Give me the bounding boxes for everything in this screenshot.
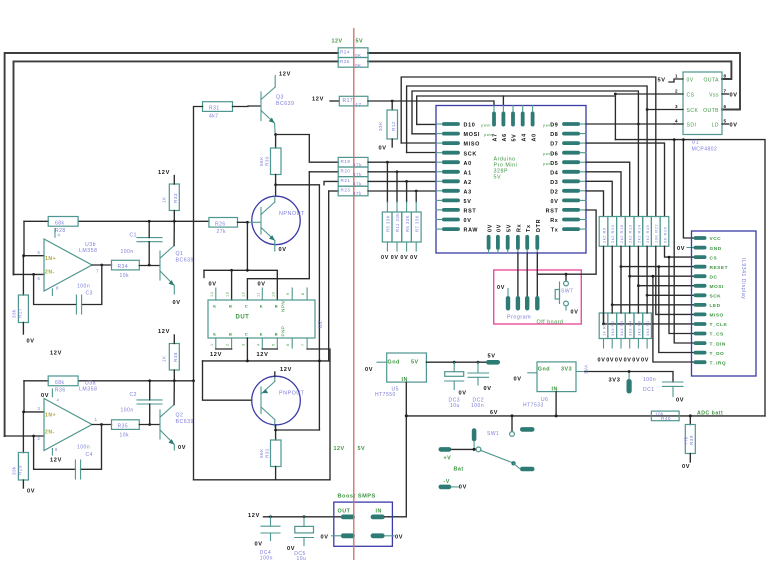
- svg-text:100n: 100n: [77, 284, 90, 290]
- svg-text:A3: A3: [464, 189, 472, 195]
- wire R27 to 0V: [22, 323, 24, 335]
- svg-text:27k: 27k: [217, 229, 227, 235]
- wire R26 to NPNOUT base + branch down to DUT: [238, 221, 248, 223]
- wire display VCC: [683, 140, 694, 238]
- svg-text:pwm: pwm: [481, 123, 491, 128]
- svg-text:0V: 0V: [391, 255, 399, 261]
- svg-text:3k3 R2: 3k3 R2: [610, 320, 615, 336]
- wire bottom loop rail: [194, 479, 331, 481]
- svg-text:47: 47: [355, 103, 362, 109]
- svg-text:C: C: [245, 332, 248, 337]
- svg-text:MISO: MISO: [710, 313, 724, 319]
- regulator U6 HT7533: [537, 362, 576, 392]
- svg-text:12V: 12V: [50, 458, 62, 464]
- svg-text:MOSI: MOSI: [464, 132, 481, 138]
- capacitor DC5 10u: [303, 517, 305, 527]
- svg-text:4: 4: [256, 343, 260, 346]
- svg-text:R7 33K: R7 33K: [415, 215, 420, 232]
- svg-text:BC639: BC639: [276, 101, 294, 107]
- Arduino right pin 0V: [562, 199, 580, 203]
- svg-text:12V: 12V: [158, 329, 170, 335]
- wire +IN stub: [23, 255, 44, 257]
- resistor R12 33K pulldown: [391, 101, 393, 110]
- svg-text:R30: R30: [265, 156, 270, 166]
- svg-text:OUT: OUT: [338, 508, 351, 514]
- resistor R14 2k2: [634, 217, 643, 247]
- transistor PNPOUT: [252, 376, 301, 425]
- svg-text:1: 1: [675, 74, 678, 79]
- svg-text:12V: 12V: [332, 39, 343, 45]
- Arduino left pin D10: [442, 122, 460, 126]
- resistor R16 0K: [660, 217, 669, 247]
- svg-text:56K: 56K: [259, 448, 264, 458]
- svg-text:E: E: [260, 332, 263, 337]
- display pin DC: [694, 274, 707, 278]
- svg-text:100n: 100n: [121, 249, 134, 255]
- svg-text:0V: 0V: [551, 199, 559, 205]
- Arduino right pin Tx: [562, 227, 580, 231]
- wire PNPOUT emitter node: [275, 425, 277, 440]
- svg-text:D3: D3: [550, 180, 558, 186]
- wire Rx to header: [517, 253, 519, 296]
- resistor R30 56K: [271, 148, 282, 175]
- wire A2 sense tap: [324, 181, 338, 184]
- svg-text:5V: 5V: [494, 175, 502, 181]
- wire rail down to Boost IN: [389, 416, 406, 517]
- svg-text:C2: C2: [130, 392, 137, 398]
- svg-text:CS: CS: [710, 255, 718, 261]
- svg-text:Q2: Q2: [176, 412, 184, 418]
- resistor R15 2k2: [643, 217, 652, 247]
- resistor R8 3k3: [634, 313, 643, 339]
- resistor R36 68k: [48, 376, 78, 386]
- svg-text:5V: 5V: [488, 354, 496, 360]
- Arduino right pin D2: [562, 189, 580, 193]
- resistor R38 1K: [169, 344, 179, 371]
- svg-text:C1: C1: [130, 233, 137, 239]
- wire 3k3 tops: [603, 313, 605, 324]
- wire R34 to Q1 base: [139, 265, 159, 267]
- svg-text:OUTA: OUTA: [703, 77, 719, 83]
- svg-text:2: 2: [675, 89, 678, 94]
- svg-text:LD: LD: [712, 122, 719, 128]
- svg-text:DTR: DTR: [536, 219, 542, 232]
- svg-text:0V: 0V: [484, 386, 492, 392]
- Arduino left pin SCK: [442, 151, 460, 155]
- wire +IN divider vertical (R36 corner down to R29): [23, 381, 25, 412]
- wire Q3 emitter to R30: [274, 133, 277, 136]
- capacitor DC4 100n: [270, 517, 272, 526]
- Boost SMPS module box: [334, 502, 393, 546]
- display pin CS: [694, 255, 707, 259]
- svg-text:68k: 68k: [55, 380, 65, 386]
- regulator U5 HT7550: [387, 353, 427, 382]
- node +IN junction: [22, 254, 25, 257]
- svg-text:2: 2: [226, 343, 230, 346]
- svg-text:11: 11: [256, 292, 260, 297]
- svg-text:3k3 R4: 3k3 R4: [628, 320, 633, 336]
- svg-text:DC1: DC1: [643, 387, 655, 393]
- resistor R5 33K: [382, 212, 392, 242]
- svg-text:0V: 0V: [624, 358, 632, 364]
- wire display MOSI net: [638, 246, 694, 285]
- display module ILI9341 box: [692, 231, 757, 376]
- svg-text:2N-: 2N-: [45, 430, 55, 436]
- svg-text:D4: D4: [550, 170, 558, 176]
- svg-text:DUT: DUT: [236, 314, 250, 320]
- svg-text:0V: 0V: [173, 300, 181, 306]
- svg-text:3VA: 3VA: [583, 364, 588, 374]
- svg-text:0V: 0V: [677, 246, 685, 252]
- svg-text:5V: 5V: [464, 199, 472, 205]
- svg-text:0V: 0V: [459, 391, 467, 397]
- Arduino left pin A2: [442, 179, 460, 183]
- svg-text:12: 12: [241, 292, 245, 297]
- wire D9 to MCP SDI: [586, 123, 674, 125]
- wire A0 sense from Q3 emitter node: [276, 135, 339, 163]
- svg-text:SCK: SCK: [464, 151, 477, 157]
- svg-text:2k2 R9: 2k2 R9: [602, 227, 607, 243]
- svg-text:Q3: Q3: [276, 95, 284, 101]
- svg-text:A2: A2: [464, 180, 472, 186]
- svg-text:4: 4: [57, 398, 60, 403]
- display pin SCK: [694, 293, 707, 297]
- svg-text:0V: 0V: [365, 367, 373, 373]
- svg-text:2k2 R10: 2k2 R10: [610, 224, 615, 243]
- Arduino right pin D3: [562, 179, 580, 183]
- resistor R1 3k3: [643, 313, 652, 339]
- svg-text:R31: R31: [209, 105, 220, 111]
- svg-text:12V: 12V: [248, 513, 260, 519]
- svg-text:RAW: RAW: [464, 228, 479, 234]
- Arduino left pin MISO: [442, 141, 460, 145]
- battery rail 6V: [406, 415, 765, 417]
- resistor R26 27k: [209, 218, 238, 228]
- Arduino left pin MOSI: [442, 132, 460, 136]
- display pin MISO: [694, 313, 707, 317]
- svg-text:PNP: PNP: [281, 326, 286, 337]
- wire C-rail bus under DUT: [203, 360, 329, 362]
- Arduino left pin RAW: [442, 227, 460, 231]
- svg-text:5V: 5V: [506, 224, 512, 232]
- svg-text:0K: 0K: [355, 63, 362, 68]
- resistor R10 2k2: [608, 217, 617, 247]
- display pin T_DIN: [694, 341, 707, 345]
- svg-text:E: E: [260, 304, 263, 309]
- wire D5 to column: [586, 162, 630, 216]
- resistor R17 1k: [599, 313, 608, 339]
- svg-text:6V: 6V: [490, 410, 498, 416]
- svg-text:0V: 0V: [676, 398, 684, 404]
- svg-text:RST: RST: [546, 209, 559, 215]
- resistor R22 10K: [651, 217, 660, 247]
- wire A7 net: [368, 101, 494, 106]
- resistor R18 2k2: [617, 217, 626, 247]
- sheet split red line (overlay): [353, 28, 355, 560]
- svg-text:DC: DC: [710, 274, 718, 280]
- resistor R3 3k3: [617, 313, 626, 339]
- svg-text:4: 4: [675, 119, 678, 124]
- wire DUT pin6 stub: [291, 338, 293, 348]
- svg-text:3: 3: [241, 343, 245, 346]
- transistor Q1 BC639: [159, 251, 161, 280]
- svg-text:3V3: 3V3: [561, 367, 572, 373]
- Arduino left pin 0V: [442, 218, 460, 222]
- Arduino left pin A3: [442, 189, 460, 193]
- svg-text:0V: 0V: [379, 146, 387, 152]
- wire display T_IRQ net: [653, 276, 694, 362]
- svg-text:5V: 5V: [358, 446, 366, 452]
- svg-text:2: 2: [38, 436, 41, 441]
- svg-text:Vss: Vss: [709, 92, 719, 98]
- wire A1 sense from DUT pin12: [309, 171, 338, 173]
- svg-text:0V: 0V: [632, 358, 640, 364]
- svg-text:Program: Program: [507, 315, 531, 321]
- svg-text:2N-: 2N-: [45, 270, 55, 276]
- svg-text:0V: 0V: [459, 485, 467, 491]
- svg-text:R17: R17: [343, 98, 354, 104]
- wire U6 IN to rail: [555, 392, 557, 416]
- svg-text:0V: 0V: [400, 255, 408, 261]
- svg-text:100n: 100n: [121, 408, 134, 414]
- Arduino right pin D8: [562, 132, 580, 136]
- svg-text:0V: 0V: [571, 310, 579, 316]
- svg-text:R29: R29: [18, 465, 23, 475]
- resistor R33 1K: [169, 184, 179, 211]
- wire MCP LD to 0V: [722, 123, 729, 125]
- svg-text:GND: GND: [710, 246, 722, 252]
- svg-text:R27: R27: [18, 308, 23, 318]
- svg-text:1: 1: [95, 417, 98, 422]
- wire Tx to header: [526, 253, 528, 296]
- display pin T_DO: [694, 351, 707, 355]
- resistor R13 2k2: [625, 217, 634, 247]
- wire DUT pin3 down to C rail: [246, 338, 248, 361]
- svg-text:PNPOUT: PNPOUT: [279, 391, 305, 397]
- svg-text:C4: C4: [86, 452, 93, 458]
- svg-text:1N+: 1N+: [45, 256, 56, 262]
- svg-text:Bat: Bat: [454, 466, 464, 472]
- svg-text:5V: 5V: [356, 39, 364, 45]
- wire MCP CS from D10 bus: [615, 93, 683, 95]
- capacitor DC2 100n: [477, 362, 479, 373]
- wire D3 to column: [586, 181, 612, 216]
- Arduino right pin D4: [562, 170, 580, 174]
- wire Boost 0V pins: [332, 535, 341, 537]
- capacitor C3 100n feedback: [34, 274, 77, 304]
- svg-text:14: 14: [210, 292, 214, 297]
- svg-text:IN: IN: [376, 508, 382, 514]
- wire R31 left lead long vertical to U3a feedback: [194, 107, 203, 480]
- svg-text:0V: 0V: [279, 247, 287, 253]
- wire display MISO net: [656, 246, 694, 314]
- wire D7 to column R16: [586, 143, 665, 216]
- svg-text:pwm: pwm: [543, 151, 553, 156]
- svg-text:A1: A1: [464, 170, 472, 176]
- resistor R35 10k: [112, 420, 140, 430]
- Arduino right pin Rx: [562, 218, 580, 222]
- wire MOSI bus (y=91): [412, 133, 436, 135]
- wire SCK bus (y=86): [407, 152, 436, 154]
- svg-text:33k: 33k: [12, 466, 17, 475]
- wire Boost IN lead: [385, 516, 389, 518]
- svg-text:33k: 33k: [12, 309, 17, 318]
- svg-text:12V: 12V: [210, 352, 222, 358]
- svg-text:D8: D8: [550, 132, 558, 138]
- svg-text:-V: -V: [444, 479, 450, 485]
- svg-text:Off board: Off board: [537, 320, 564, 326]
- svg-text:3V3: 3V3: [609, 378, 621, 384]
- wire outer DAC bus (OUTB net): left border + top run to MCP pin6: [5, 53, 339, 436]
- svg-text:68k: 68k: [55, 221, 65, 227]
- wire A1 row to Arduino: [368, 171, 436, 173]
- resistor R4 3k3: [625, 313, 634, 339]
- Arduino right pin RST: [562, 208, 580, 212]
- svg-text:100n: 100n: [471, 403, 484, 409]
- svg-text:U3a: U3a: [85, 381, 96, 387]
- svg-text:5V: 5V: [411, 360, 419, 366]
- svg-text:R12: R12: [391, 121, 396, 131]
- svg-text:3k3 R8: 3k3 R8: [636, 320, 641, 336]
- capacitor C4 100n feedback: [34, 436, 76, 469]
- resistor R7 33K: [411, 212, 421, 242]
- svg-text:SDI: SDI: [687, 122, 697, 128]
- wire DUT pin14 lead: [215, 288, 217, 300]
- wire R35 to Q2 base: [139, 424, 159, 426]
- svg-text:B: B: [229, 332, 232, 337]
- svg-text:D7: D7: [550, 142, 558, 148]
- svg-text:12V: 12V: [279, 71, 291, 77]
- svg-text:12V: 12V: [158, 170, 170, 176]
- wire collector node to DUT C rail: [276, 185, 320, 430]
- wire inner DAC bus (OUTA net): left border + top run to MCP pin8: [14, 61, 339, 274]
- pin 8 stub U3a + 12V: [51, 449, 53, 456]
- svg-text:10u: 10u: [450, 403, 460, 409]
- svg-text:4: 4: [58, 233, 61, 238]
- svg-text:0V: 0V: [395, 534, 403, 540]
- svg-text:CS: CS: [687, 92, 695, 98]
- DUT socket box U2: [208, 300, 315, 338]
- svg-text:0V: 0V: [258, 282, 266, 288]
- svg-text:2k2 R13: 2k2 R13: [628, 224, 633, 243]
- wire display CS net: [665, 246, 695, 257]
- svg-text:Gnd: Gnd: [388, 360, 400, 366]
- svg-text:LM358: LM358: [79, 248, 97, 254]
- resistor R34 10k: [112, 260, 140, 270]
- svg-text:0V: 0V: [497, 285, 505, 291]
- header pin bars: [506, 296, 510, 311]
- wire DUT pin9/pin8 top stubs: [291, 288, 293, 300]
- svg-text:8: 8: [301, 292, 305, 295]
- stacked sense resistors A0-A3: [338, 157, 368, 167]
- svg-text:0V: 0V: [606, 358, 614, 364]
- svg-text:LM358: LM358: [79, 387, 97, 393]
- svg-text:R35: R35: [118, 424, 129, 430]
- svg-text:12V: 12V: [257, 352, 269, 358]
- svg-text:1N+: 1N+: [45, 412, 56, 418]
- svg-text:R40: R40: [661, 416, 671, 421]
- resistor R29 33k: [18, 453, 28, 481]
- svg-text:5: 5: [724, 119, 727, 124]
- wire display DC net: [630, 246, 694, 276]
- wire display T_DIN net: [674, 140, 694, 343]
- svg-text:HT7550: HT7550: [375, 392, 396, 398]
- capacitor DC3 10u: [453, 362, 455, 372]
- svg-text:IN: IN: [552, 386, 558, 392]
- svg-text:5V: 5V: [512, 134, 518, 142]
- svg-text:+V: +V: [444, 456, 452, 462]
- svg-text:12V: 12V: [334, 446, 345, 452]
- wire U3b feedback node (y=221.3 from corner to R26): [24, 220, 48, 222]
- display pin GND: [694, 246, 707, 250]
- svg-text:SCK: SCK: [687, 108, 699, 114]
- op-amp U3a LM358: [44, 399, 92, 451]
- svg-text:10K R22: 10K R22: [654, 224, 659, 243]
- svg-text:12V: 12V: [312, 97, 324, 103]
- wire DUT pin7 to right rail: [306, 338, 308, 349]
- wire U6 3V3 output: [576, 371, 585, 373]
- Arduino right pin D7: [562, 141, 580, 145]
- DAC U1 MCP4802 box: [683, 72, 722, 135]
- wire 12V to Boost OUT: [264, 516, 341, 518]
- wire R31 to Q3 base (jog): [233, 105, 261, 108]
- resistor R2 3k3: [608, 313, 617, 339]
- svg-text:BC639: BC639: [176, 419, 194, 425]
- wire A2 row to Arduino: [368, 180, 436, 182]
- svg-text:OUTB: OUTB: [703, 108, 719, 114]
- wire DUT top B/E rail (y=270.3): [204, 270, 277, 300]
- svg-text:R26: R26: [215, 221, 226, 227]
- svg-text:7: 7: [96, 269, 99, 274]
- capacitor C1 100n: [137, 237, 162, 239]
- display pin LED: [694, 303, 707, 307]
- svg-text:A4: A4: [521, 133, 527, 141]
- svg-text:T_DIN: T_DIN: [710, 341, 726, 347]
- Arduino left pin 5V: [442, 199, 460, 203]
- svg-text:0V: 0V: [687, 77, 694, 83]
- svg-text:R36: R36: [55, 387, 66, 393]
- svg-text:Q1: Q1: [176, 251, 184, 257]
- svg-text:T_CLK: T_CLK: [710, 322, 728, 328]
- svg-text:10u: 10u: [297, 556, 307, 562]
- svg-text:RST: RST: [464, 209, 477, 215]
- svg-text:R11 33K: R11 33K: [395, 213, 400, 233]
- svg-text:6: 6: [286, 343, 290, 346]
- svg-text:0V: 0V: [27, 489, 35, 495]
- svg-text:2k2 R18: 2k2 R18: [619, 224, 624, 243]
- wire MISO bus (y=77): [401, 142, 436, 144]
- svg-text:0V: 0V: [730, 123, 738, 129]
- wire U3b output to R34: [92, 264, 112, 266]
- svg-text:9: 9: [286, 292, 290, 295]
- wire display T_DO net: [659, 267, 694, 353]
- display pin MOSI: [694, 284, 707, 288]
- svg-text:0V: 0V: [641, 358, 649, 364]
- svg-text:2k2 R14: 2k2 R14: [636, 224, 641, 243]
- wire +IN divider vertical (R28 corner down through +IN to R27): [23, 221, 25, 255]
- svg-text:7: 7: [724, 89, 727, 94]
- svg-text:R34: R34: [118, 264, 129, 270]
- svg-text:VCC: VCC: [710, 236, 722, 242]
- svg-text:R6 33K: R6 33K: [405, 215, 410, 232]
- wire U3a feedback node (y=380.8): [24, 380, 48, 382]
- svg-text:ADC batt: ADC batt: [697, 411, 723, 417]
- pin 8 stub U3b: [51, 289, 53, 296]
- transistor NPNOUT: [252, 196, 300, 244]
- pin 4 stub U3b: [54, 229, 56, 238]
- 5V output bar: [486, 360, 500, 365]
- svg-text:10: 10: [271, 292, 275, 297]
